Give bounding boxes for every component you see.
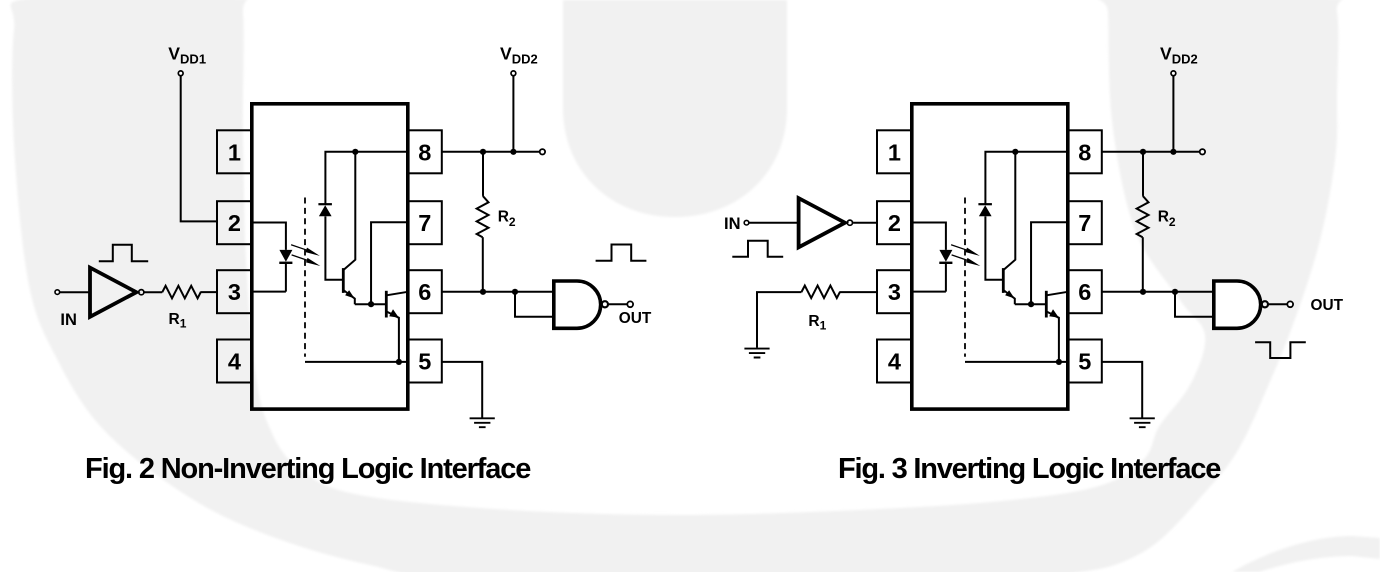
transistor Q4 collector (1047, 292, 1068, 296)
LED D1 (279, 250, 292, 262)
junction Q4 emitter-pin5 (1056, 359, 1062, 365)
transistor Q3 base bar (1002, 268, 1005, 293)
junction Q2 emitter-pin5 (396, 359, 402, 365)
inverter A2 (799, 198, 845, 247)
junction R2-pin6 (1140, 289, 1146, 295)
wire R2 bottom (1142, 237, 1144, 292)
pin 6 box (408, 270, 442, 313)
input pulse waveform (732, 241, 783, 257)
terminal OUT (627, 301, 633, 307)
transistor Q2 base bar (385, 291, 388, 318)
svg-text:VDD2: VDD2 (500, 43, 538, 66)
wire VDD2 (512, 76, 514, 152)
wire R1 to ground (757, 292, 801, 348)
light arrow 2 (291, 253, 322, 268)
junction R2 top (480, 149, 486, 155)
ground GND1 (470, 418, 495, 427)
LED D3 cathode bar (939, 262, 952, 264)
pin 8 box (408, 130, 442, 173)
svg-text:6: 6 (1078, 279, 1091, 305)
wire pin6 to NAND (442, 291, 554, 293)
pin 7 box (408, 201, 442, 244)
junction pin8-T1 (352, 149, 358, 155)
watermark bottom-right arc ring (1232, 536, 1380, 572)
svg-text:Fig. 3 Inverting Logic Interfa: Fig. 3 Inverting Logic Interface (838, 453, 1221, 485)
NAND gate U2 (554, 281, 601, 328)
transistor Q3 emitter (1004, 291, 1015, 305)
junction NAND lower branch (512, 289, 518, 295)
svg-text:8: 8 (418, 140, 431, 166)
pin 1 box (217, 130, 252, 173)
NAND gate U4 (1214, 281, 1261, 328)
wire pin5 to ground (442, 362, 482, 418)
svg-text:OUT: OUT (1311, 297, 1344, 314)
optocoupler dashed isolation line (964, 198, 966, 357)
wire IN to inverter (749, 222, 799, 224)
wire pin2 to LED (252, 223, 286, 250)
wire diode to T3 base (985, 216, 1003, 279)
output inverted pulse waveform (1255, 342, 1306, 358)
junction pin7-Q4base (1028, 301, 1034, 307)
pin 3 box (877, 270, 912, 313)
light arrow 2 (951, 253, 982, 268)
svg-text:2: 2 (888, 210, 901, 236)
inverter A1 (90, 268, 136, 317)
transistor Q2 collector (387, 292, 408, 296)
wire pin5 to ground (1102, 362, 1142, 418)
diode D2 (319, 205, 332, 216)
wire pin6 to NAND (1102, 291, 1214, 293)
optocoupler dashed isolation line (304, 198, 306, 357)
svg-text:3: 3 (228, 279, 241, 305)
terminal VDD2 (1171, 71, 1176, 76)
terminal VDD1 (178, 71, 183, 76)
wire NAND lower input (515, 292, 554, 317)
resistor R2 (477, 196, 489, 237)
inverter A1 output bubble (139, 290, 144, 295)
wire pin8 to VDD2 rail (442, 151, 540, 153)
pin 6 box (1068, 270, 1102, 313)
wire pin7 (371, 222, 408, 304)
NAND U4 output bubble (1262, 301, 1268, 307)
resistor R1 (162, 286, 201, 299)
svg-text:1: 1 (228, 140, 241, 166)
junction R2-pin6 (480, 289, 486, 295)
svg-text:3: 3 (888, 279, 901, 305)
resistor R1 (801, 286, 840, 299)
pin 7 box (1068, 201, 1102, 244)
transistor Q4 base bar (1045, 291, 1048, 318)
wire VDD1 to pin2 (181, 76, 218, 221)
wire pin8 internal (985, 152, 1067, 204)
svg-text:7: 7 (418, 210, 431, 236)
wire pin5 internal (965, 361, 1068, 363)
pin 2 box (877, 201, 912, 244)
wire pin2 to LED (912, 223, 946, 250)
junction pin8-Q3 (1012, 149, 1018, 155)
wire NAND to OUT (608, 303, 627, 305)
transistor Q2 emitter (387, 312, 399, 362)
svg-text:R1: R1 (808, 313, 826, 332)
wire LED to pin3 (912, 263, 946, 292)
transistor Q4 emitter arrow (1049, 309, 1059, 318)
pin 4 box (217, 340, 252, 383)
pin 1 box (877, 130, 912, 173)
pin 5 box (1068, 340, 1102, 383)
output pulse waveform (596, 245, 647, 261)
wire Q1 emitter to Q2 base (355, 303, 387, 305)
junction R2 top (1140, 149, 1146, 155)
pin 2 box (217, 201, 252, 244)
wire LED to pin3 (252, 263, 286, 292)
terminal rail end (1200, 149, 1205, 154)
wire VDD2 (1172, 76, 1174, 152)
ground GND2 (744, 349, 769, 358)
input pulse waveform (99, 245, 148, 261)
IC U3 body (912, 104, 1068, 409)
svg-text:5: 5 (1078, 349, 1091, 375)
wire R2 bottom (482, 237, 484, 292)
watermark inner stroke tip (563, 0, 787, 217)
diode D4 (979, 205, 992, 216)
light arrow 1 (950, 242, 981, 257)
light arrow 1 (290, 242, 321, 257)
wire pin8 to VDD2 rail (1102, 151, 1200, 153)
svg-text:IN: IN (60, 311, 77, 329)
wire Q3 emitter to Q4 base (1015, 303, 1047, 305)
transistor Q2 emitter arrow (389, 309, 399, 318)
pin 5 box (408, 340, 442, 383)
wire pin7 (1031, 222, 1068, 304)
svg-text:4: 4 (888, 349, 901, 375)
transistor Q4 emitter (1047, 312, 1059, 362)
transistor Q1 base bar (342, 268, 345, 293)
transistor Q1 emitter (344, 291, 355, 305)
svg-text:OUT: OUT (619, 310, 652, 327)
LED D1 cathode bar (279, 262, 292, 264)
terminal IN (55, 290, 60, 295)
wire IN to inverter (60, 291, 90, 293)
NAND U2 output bubble (602, 301, 608, 307)
transistor Q3 collector (1004, 152, 1015, 270)
diode D2 cathode bar (318, 203, 332, 205)
wire R1 to pin3 (200, 291, 218, 293)
svg-text:2: 2 (228, 210, 241, 236)
svg-text:1: 1 (888, 140, 901, 166)
wire pin5 internal (305, 361, 408, 363)
terminal rail end (540, 149, 545, 154)
junction NAND lower branch (1172, 289, 1178, 295)
pin 4 box (877, 340, 912, 383)
wire NAND to OUT (1268, 303, 1287, 305)
wire inverter to R1 (145, 291, 163, 293)
ground GND3 (1130, 418, 1155, 427)
wire diode to T1 base (325, 216, 343, 279)
svg-text:6: 6 (418, 279, 431, 305)
terminal IN (744, 220, 749, 225)
resistor R2 (1137, 196, 1149, 237)
wire R1 to pin3 (840, 291, 878, 293)
wire pin8 internal (325, 152, 407, 204)
inverter A2 output bubble (847, 220, 852, 225)
diode D4 cathode bar (978, 203, 992, 205)
transistor Q1 collector (344, 152, 355, 270)
svg-text:8: 8 (1078, 140, 1091, 166)
svg-text:R2: R2 (498, 209, 516, 229)
svg-text:IN: IN (724, 215, 741, 233)
wire NAND lower input (1175, 292, 1214, 317)
terminal OUT (1287, 301, 1293, 307)
transistor Q3 emitter arrow (1005, 290, 1015, 298)
wire R2 top (482, 152, 484, 196)
transistor Q1 emitter arrow (345, 290, 355, 298)
terminal VDD2 (511, 71, 516, 76)
wire inverter to pin2 (853, 222, 878, 224)
svg-text:4: 4 (228, 349, 241, 375)
junction VDD2 (1170, 149, 1176, 155)
junction VDD2 (510, 149, 516, 155)
pin 8 box (1068, 130, 1102, 173)
svg-text:Fig. 2 Non-Inverting Logic Int: Fig. 2 Non-Inverting Logic Interface (85, 453, 531, 485)
pin 3 box (217, 270, 252, 313)
wire R2 top (1142, 152, 1144, 196)
junction pin7-Q2base (368, 301, 374, 307)
IC U1 body (252, 104, 408, 409)
svg-text:7: 7 (1078, 210, 1091, 236)
svg-text:5: 5 (418, 349, 431, 375)
LED D3 (939, 250, 952, 262)
